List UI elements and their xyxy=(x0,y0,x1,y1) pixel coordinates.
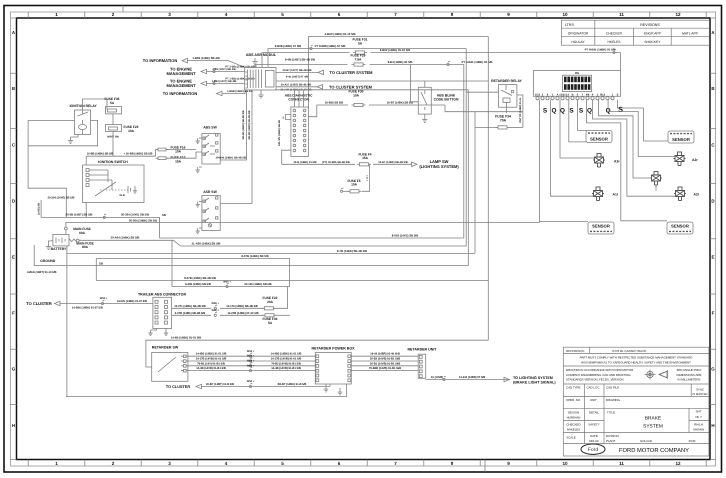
svg-text:DRAFTED IN ACCORDANCE WITH FOR: DRAFTED IN ACCORDANCE WITH FORD MOTOR xyxy=(566,368,633,372)
svg-text:19-44 (14BR) 91-40 4kB: 19-44 (14BR) 91-40 4kB xyxy=(370,353,400,356)
svg-text:20-304 (14BK) SB 5/B: 20-304 (14BK) SB 5/B xyxy=(129,218,157,222)
ground inside ignition switch xyxy=(134,186,136,188)
svg-text:E: E xyxy=(12,255,15,260)
wire relay bottom to fuse F34 line xyxy=(506,107,508,113)
svg-text:10A: 10A xyxy=(351,183,358,187)
svg-text:10A: 10A xyxy=(128,129,135,133)
svg-text:RETARDER POWER BOX: RETARDER POWER BOX xyxy=(311,346,355,350)
svg-text:S: S xyxy=(579,108,584,115)
svg-text:DESIGN: DESIGN xyxy=(568,410,579,414)
svg-text:(14YE) SB: (14YE) SB xyxy=(38,203,41,215)
svg-text:60A: 60A xyxy=(79,231,86,235)
svg-text:PIN: PIN xyxy=(575,72,579,75)
svg-text:B: B xyxy=(711,86,714,91)
svg-text:2: 2 xyxy=(112,461,115,466)
svg-text:CAD TYPE: CAD TYPE xyxy=(566,386,580,390)
svg-text:7: 7 xyxy=(394,12,397,17)
svg-text:A2r: A2r xyxy=(692,158,698,162)
svg-text:H: H xyxy=(12,423,15,428)
svg-text:3: 3 xyxy=(168,461,171,466)
svg-text:10-B7 (14BK) SB-4B 5/B: 10-B7 (14BK) SB-4B 5/B xyxy=(378,161,408,164)
svg-text:ORIGINATOR: ORIGINATOR xyxy=(568,31,589,35)
wires retarder sw to power box xyxy=(186,355,315,357)
svg-text:10 (14VB): 10 (14VB) xyxy=(431,376,443,379)
svg-text:PT 9-B08 (14BK) 97 5/B: PT 9-B08 (14BK) 97 5/B xyxy=(315,44,346,48)
wire pin 8 right-routed to middle valve xyxy=(599,100,652,178)
svg-text:4-B3 (14VT) SB 4/B: 4-B3 (14VT) SB 4/B xyxy=(212,68,235,71)
wire ignition switch bottom drop xyxy=(85,203,87,218)
svg-text:2: 2 xyxy=(112,12,115,17)
svg-text:WS0 +: WS0 + xyxy=(212,309,220,312)
wire pin 1 branch to bottom-left sensor xyxy=(540,221,589,223)
svg-text:IGNITION SWITCH: IGNITION SWITCH xyxy=(98,160,128,164)
svg-text:1-B5B (14BK) SB 4/B: 1-B5B (14BK) SB 4/B xyxy=(227,90,253,93)
svg-text:30-B06 (14BK) SB-4B 5/B: 30-B06 (14BK) SB-4B 5/B xyxy=(216,157,247,160)
wire engine mgmt upper to module xyxy=(207,71,245,73)
svg-text:DIMENSIONS ARE: DIMENSIONS ARE xyxy=(677,373,702,377)
svg-text:CODE BUTTON: CODE BUTTON xyxy=(434,98,459,102)
ground below module xyxy=(260,90,262,92)
svg-text:ABS SW: ABS SW xyxy=(203,126,217,130)
svg-text:B: B xyxy=(572,93,574,96)
sensor bottom-left xyxy=(588,222,614,234)
wire information upper to module diagonal xyxy=(188,61,245,68)
svg-text:REFERENCE: REFERENCE xyxy=(566,349,585,353)
wire H280 bracket long line to V488 xyxy=(96,280,488,282)
svg-text:11: 11 xyxy=(619,12,624,17)
valve A1l xyxy=(592,187,604,201)
wire module right to V468 line y89.8 xyxy=(276,89,468,91)
fuse F33 xyxy=(265,314,274,317)
svg-text:10: 10 xyxy=(562,12,568,17)
svg-text:GOLCUK: GOLCUK xyxy=(640,439,652,443)
svg-text:MANAGEMENT: MANAGEMENT xyxy=(166,71,196,76)
svg-text:14-025 (14BK) 91-07 5/B: 14-025 (14BK) 91-07 5/B xyxy=(117,300,147,303)
svg-text:D: D xyxy=(711,198,714,203)
svg-text:DATE: DATE xyxy=(590,434,598,438)
svg-text:70A: 70A xyxy=(500,119,507,123)
diag connector left bracket xyxy=(286,115,291,120)
wire diagonal jog xyxy=(174,240,181,246)
wire S pin right-routed to top-right sensor xyxy=(618,100,668,141)
svg-text:4-BU0 (14BK) 91-10 5/B: 4-BU0 (14BK) 91-10 5/B xyxy=(325,32,356,36)
svg-text:5: 5 xyxy=(281,12,284,17)
svg-text:A2l: A2l xyxy=(694,193,699,197)
wire pin 4 to top-left sensor lower feed xyxy=(569,100,587,142)
svg-text:14-434 (14BR) 97 5/B: 14-434 (14BR) 97 5/B xyxy=(459,376,485,379)
wire relay right side down xyxy=(517,95,523,127)
wire top line from module pin to V466 xyxy=(268,49,466,68)
wire information lower to module xyxy=(222,90,245,94)
svg-text:WS0 +: WS0 + xyxy=(212,302,220,305)
top fiducial mark xyxy=(122,6,124,13)
svg-text:MANAGEMENT: MANAGEMENT xyxy=(166,83,196,88)
svg-text:DRAWING: DRAWING xyxy=(606,398,621,402)
wire to trailer abs connector xyxy=(60,303,153,305)
svg-text:4: 4 xyxy=(225,461,228,466)
wire battery main vertical down xyxy=(66,246,68,397)
svg-text:+ 30-BB (14BK) SB 5/B: + 30-BB (14BK) SB 5/B xyxy=(124,153,153,156)
svg-text:9-07B (14BK) SB-4B 5/B: 9-07B (14BK) SB-4B 5/B xyxy=(175,312,206,315)
stub below middle valve xyxy=(655,185,657,191)
svg-text:20-B1 (14VB) 91-B1 5kB: 20-B1 (14VB) 91-B1 5kB xyxy=(370,362,400,365)
svg-text:5: 5 xyxy=(281,461,284,466)
svg-text:20-B2 (14VB) 91-B1 5kB: 20-B2 (14VB) 91-B1 5kB xyxy=(370,358,400,361)
svg-text:5A: 5A xyxy=(358,42,363,46)
svg-text:14-17B (14VB) 91-01 5/B: 14-17B (14VB) 91-01 5/B xyxy=(271,358,302,361)
svg-text:PART MUST COMPLY WITH RESTRICT: PART MUST COMPLY WITH RESTRICTED SUBSTAN… xyxy=(580,355,693,359)
svg-text:OF 7: OF 7 xyxy=(695,415,702,419)
wire fuse f16/f10 leads xyxy=(156,149,158,151)
svg-text:20-304 (14YE) SB 5/B: 20-304 (14YE) SB 5/B xyxy=(121,213,149,217)
wire ABS SW right to module drop V246 xyxy=(220,90,246,160)
ground below ignition relay xyxy=(71,135,79,138)
wire engine mgmt lower to module xyxy=(207,83,245,85)
ground below ASR SW xyxy=(199,227,202,229)
wire pin 6 right-routed to bottom-right sensor xyxy=(586,100,667,221)
wire H265 battery enclosure to V468 xyxy=(34,245,468,266)
svg-text:10A: 10A xyxy=(175,149,182,153)
wire fuse ladder down to ignition feed line xyxy=(112,114,114,125)
svg-text:SB: SB xyxy=(162,213,166,217)
svg-text:CHECKER: CHECKER xyxy=(606,31,623,35)
svg-text:H: H xyxy=(711,423,714,428)
svg-text:4: 4 xyxy=(225,12,228,17)
svg-text:CAD FILE: CAD FILE xyxy=(606,386,619,390)
svg-text:(PT) 30-B05 SB-4B 5/B: (PT) 30-B05 SB-4B 5/B xyxy=(322,161,350,164)
fuse F23 xyxy=(106,125,122,132)
svg-text:1: 1 xyxy=(55,461,58,466)
svg-text:Q: Q xyxy=(560,108,565,115)
svg-text:14-B05 (14BK) 91-07 5/B: 14-B05 (14BK) 91-07 5/B xyxy=(72,307,103,310)
wire module to cluster system upper xyxy=(276,71,318,73)
svg-text:I I I I: I I I I xyxy=(366,175,369,180)
valve A2l xyxy=(674,187,686,201)
svg-text:(LIGHTING SYSTEM): (LIGHTING SYSTEM) xyxy=(419,164,459,169)
svg-text:10A: 10A xyxy=(353,94,360,98)
wire ignition feed horizontal xyxy=(86,155,155,157)
sensor top-right xyxy=(668,131,694,143)
svg-text:SYNC: SYNC xyxy=(696,388,704,392)
svg-text:A: A xyxy=(557,93,559,96)
svg-text:Q: Q xyxy=(587,108,592,115)
svg-text:6: 6 xyxy=(338,461,341,466)
ground below power box left xyxy=(325,384,327,386)
wire bottom ground return long xyxy=(66,396,347,398)
wire module to cluster system lower xyxy=(276,86,317,88)
svg-text:14-4B (14BK) 91-01 5/B: 14-4B (14BK) 91-01 5/B xyxy=(171,336,201,340)
wire relay top to fuse ladder xyxy=(83,99,108,110)
svg-text:BATTERY: BATTERY xyxy=(51,247,67,251)
svg-text:10-071 (14BK) SB-4B 5/B: 10-071 (14BK) SB-4B 5/B xyxy=(174,305,206,308)
svg-text:STANDARDS VERSION_FECDS_VERSIO: STANDARDS VERSION_FECDS_VERSION xyxy=(566,378,623,382)
svg-text:7.5A: 7.5A xyxy=(355,58,362,62)
wire retarder feed line y340 xyxy=(146,340,488,367)
svg-text:LTRS: LTRS xyxy=(565,23,575,27)
svg-text:REVISIONS: REVISIONS xyxy=(640,23,660,27)
svg-text:IN MILLIMETERS: IN MILLIMETERS xyxy=(678,378,701,382)
svg-text:10: 10 xyxy=(562,461,568,466)
wire battery feed to diagonal jog xyxy=(79,239,173,241)
svg-text:Q: Q xyxy=(552,108,557,115)
svg-text:SHOWN: SHOWN xyxy=(693,428,704,432)
svg-text:BRAKE: BRAKE xyxy=(645,415,661,421)
svg-text:PT 9-B41 (14BK) 91 5/B: PT 9-B41 (14BK) 91 5/B xyxy=(585,48,616,52)
svg-text:20-A27 (14BT) SB-4B 4/B: 20-A27 (14BT) SB-4B 4/B xyxy=(281,83,312,86)
svg-text:SENSOR: SENSOR xyxy=(590,136,608,141)
ground left of ABS SW top xyxy=(199,137,202,139)
svg-text:6: 6 xyxy=(338,12,341,17)
svg-text:79-B4B (14VB) 91-B1 5kB: 79-B4B (14VB) 91-B1 5kB xyxy=(369,367,401,370)
svg-text:20-129 (14BK) SB 5/B: 20-129 (14BK) SB 5/B xyxy=(244,283,271,286)
svg-text:F: F xyxy=(712,311,715,316)
wire stub ignition low to battery-pin line xyxy=(159,217,161,222)
valve middle A1r xyxy=(650,172,662,186)
svg-text:TO INFORMATION: TO INFORMATION xyxy=(143,58,178,63)
title block xyxy=(563,347,709,456)
switch ABS BLINK CODE BUTTON xyxy=(418,87,431,114)
ground left of ASR SW top xyxy=(199,201,202,203)
svg-text:B: B xyxy=(12,86,15,91)
svg-text:IS MASTER: IS MASTER xyxy=(692,392,707,396)
wire V488 top feed down to retarder box line xyxy=(487,37,489,341)
wire pin 5 to top-left sensor upper feed xyxy=(578,100,587,131)
Ford oval logo xyxy=(581,444,605,454)
wire lamp switch line xyxy=(282,163,355,165)
svg-text:A1l: A1l xyxy=(613,193,618,197)
svg-text:9-4a (14BT) 97 4/B: 9-4a (14BT) 97 4/B xyxy=(286,75,308,78)
wire Q pin right-routed to valve A2r xyxy=(608,100,675,157)
svg-text:SB-4B (14BK) SB-4B 5/B: SB-4B (14BK) SB-4B 5/B xyxy=(242,110,245,139)
svg-text:ABS ASR MODUL: ABS ASR MODUL xyxy=(246,53,277,57)
svg-text:S: S xyxy=(569,108,574,115)
wire left loop vertical down to ignition low line xyxy=(28,120,66,217)
svg-text:7: 7 xyxy=(394,461,397,466)
svg-text:IGNITION RELAY: IGNITION RELAY xyxy=(70,104,98,108)
wire V475 tee down to H253 xyxy=(474,112,476,253)
svg-text:3RD ANGLE PROJ: 3RD ANGLE PROJ xyxy=(677,368,702,372)
svg-text:8-498 (14BK) SB 5/B: 8-498 (14BK) SB 5/B xyxy=(185,283,211,286)
svg-text:WS0 +: WS0 + xyxy=(247,350,255,353)
svg-text:20-A04 (14BK) SB 5/B: 20-A04 (14BK) SB 5/B xyxy=(111,236,140,240)
svg-text:14-4B (14VB) 91-B1 5/B: 14-4B (14VB) 91-B1 5/B xyxy=(271,367,301,370)
svg-text:5A: 5A xyxy=(110,101,115,105)
svg-text:9-B08 (14BK) 97 5/B: 9-B08 (14BK) 97 5/B xyxy=(275,44,301,48)
wire pin 1 long feed to battery main fuse xyxy=(67,100,540,223)
svg-text:3: 3 xyxy=(168,12,171,17)
svg-text:9: 9 xyxy=(507,12,510,17)
wire fuse F31 line right segment to connector block xyxy=(464,52,621,54)
svg-text:9-B4 (14BK) 91 5/B: 9-B4 (14BK) 91 5/B xyxy=(388,60,413,64)
svg-text:SCALE: SCALE xyxy=(566,436,576,440)
svg-text:B0-B7 (14BK) 91-B 5/B: B0-B7 (14BK) 91-B 5/B xyxy=(278,383,307,386)
svg-text:TO INFORMATION: TO INFORMATION xyxy=(163,91,198,96)
wires power box to retarder unit xyxy=(351,355,418,357)
svg-text:TO CLUSTER SYSTEM: TO CLUSTER SYSTEM xyxy=(329,70,373,75)
wire drop from F31 line into connector block top xyxy=(620,53,622,71)
svg-text:9-7B (14BK) SB-4B 5/B: 9-7B (14BK) SB-4B 5/B xyxy=(337,249,367,253)
svg-text:TO CLUSTER: TO CLUSTER xyxy=(26,301,52,306)
svg-text:F: F xyxy=(12,311,15,316)
fuse F31 line with fuse xyxy=(262,53,350,68)
svg-text:FORD MOTOR COMPANY: FORD MOTOR COMPANY xyxy=(619,447,689,454)
svg-text:WS0 +: WS0 + xyxy=(247,380,255,383)
svg-text:SHT: SHT xyxy=(696,409,702,413)
svg-text:JL-A00 (14BK) SB 5/B: JL-A00 (14BK) SB 5/B xyxy=(192,242,221,246)
wire pin 7 right-routed to valve A2l xyxy=(593,100,676,196)
svg-text:SHOCKEY: SHOCKEY xyxy=(644,40,661,44)
wire into retarder relay left xyxy=(466,91,498,93)
svg-text:G: G xyxy=(12,367,16,372)
svg-text:GROUND: GROUND xyxy=(40,259,56,263)
svg-text:14-07B (14BK) 97-4C 5/B: 14-07B (14BK) 97-4C 5/B xyxy=(227,312,258,315)
svg-text:1/15: 1/15 xyxy=(535,93,541,96)
wire battery feed right to V466 xyxy=(181,49,467,247)
svg-text:15A: 15A xyxy=(175,159,182,163)
svg-text:8-003 (14YE) SB 5/B: 8-003 (14YE) SB 5/B xyxy=(392,233,418,237)
svg-text:WSS-M99P9999-A1 TO SAFEGUARD H: WSS-M99P9999-A1 TO SAFEGUARD HEALTH, SAF… xyxy=(581,361,691,365)
svg-text:TO LIGHTING SYSTEM: TO LIGHTING SYSTEM xyxy=(513,376,553,380)
wire trailer line 2 with fuse F33 xyxy=(172,314,211,316)
svg-text:RETARDER SW: RETARDER SW xyxy=(152,345,179,349)
svg-text:20-B7 (14BT) 91-B 5/B: 20-B7 (14BT) 91-B 5/B xyxy=(206,383,234,386)
connector X1 retarder connector block xyxy=(533,71,620,97)
svg-text:5A: 5A xyxy=(268,321,273,325)
ground battery xyxy=(49,241,53,243)
svg-text:8-07B (14BK) SB 5/B: 8-07B (14BK) SB 5/B xyxy=(241,254,268,258)
wire diag connector pins to module xyxy=(294,90,296,107)
ground below power box right xyxy=(346,384,348,397)
svg-text:9-4M (14BT) SB-4B 5/B: 9-4M (14BT) SB-4B 5/B xyxy=(285,58,315,62)
svg-text:-1: -1 xyxy=(282,116,285,120)
wire trailer connector to fuse F22 xyxy=(172,307,211,309)
fuse F10 xyxy=(158,157,166,160)
svg-text:ENGR APP: ENGR APP xyxy=(644,31,662,35)
svg-text:Ford: Ford xyxy=(588,447,599,453)
wire V172 battery line to trailer line xyxy=(171,240,173,286)
wire fuse F34 line xyxy=(475,126,497,128)
wire fuse F4 to fuse F5 xyxy=(362,164,370,191)
revisions table xyxy=(561,20,709,45)
wire pin 2 to valve A1l xyxy=(551,100,594,196)
svg-text:9: 9 xyxy=(507,461,510,466)
svg-text:10-BB (14BK) SB 5/B: 10-BB (14BK) SB 5/B xyxy=(87,153,114,156)
svg-text:S: S xyxy=(543,108,548,115)
svg-text:HAKELES: HAKELES xyxy=(567,428,580,432)
fuse F30 line xyxy=(308,105,348,117)
svg-text:20-304 (14YE) SB 5/B: 20-304 (14YE) SB 5/B xyxy=(48,197,75,200)
wire blink button left feed from F29 drop xyxy=(411,65,419,102)
svg-text:PLANT: PLANT xyxy=(606,439,616,443)
svg-text:1-B59 (14BK) SB 4/B: 1-B59 (14BK) SB 4/B xyxy=(192,56,219,60)
wire bracket vertical x96 xyxy=(95,259,97,281)
wire ignition switch top to feed line xyxy=(85,156,87,165)
svg-text:CHECKED: CHECKED xyxy=(566,423,580,427)
wire retarder unit to lighting system xyxy=(426,379,509,381)
svg-text:TO CLUSTER SYSTEM: TO CLUSTER SYSTEM xyxy=(329,84,373,89)
svg-text:SENSOR: SENSOR xyxy=(592,224,610,229)
wire H238 ignition to V463 xyxy=(160,217,464,238)
svg-text:20-B7 (14BK) SB 5/B: 20-B7 (14BK) SB 5/B xyxy=(387,102,413,105)
valve A2r xyxy=(674,152,686,166)
svg-text:ASR SW: ASR SW xyxy=(203,190,217,194)
connector block pin numbers xyxy=(536,97,539,100)
svg-text:(BRAKE LIGHT SIGNAL): (BRAKE LIGHT SIGNAL) xyxy=(513,381,556,385)
svg-text:SYSTEM: SYSTEM xyxy=(643,424,663,430)
svg-text:14-4B2 (14BK) 91-01 5/B: 14-4B2 (14BK) 91-01 5/B xyxy=(271,353,302,356)
svg-text:20A: 20A xyxy=(267,300,274,304)
svg-text:D61.06: D61.06 xyxy=(589,439,599,443)
wire module right to blink button feed line y81 xyxy=(276,80,488,82)
svg-text:9-07B (14BK) SB-4B 5/B: 9-07B (14BK) SB-4B 5/B xyxy=(184,276,216,280)
ground below blink button xyxy=(424,114,426,116)
svg-text:RETARDER RELAY: RETARDER RELAY xyxy=(491,79,522,83)
svg-text:12: 12 xyxy=(675,12,681,17)
svg-text:OPER. NO.: OPER. NO. xyxy=(566,398,581,402)
svg-text:12: 12 xyxy=(675,461,681,466)
wire trailer top line xyxy=(172,286,290,288)
svg-text:TO CLUSTER: TO CLUSTER xyxy=(166,385,190,389)
svg-text:8: 8 xyxy=(451,461,454,466)
svg-text:6S30: 6S30 xyxy=(689,439,696,443)
wire to cluster bottom line xyxy=(202,386,331,388)
svg-text:4-BU6 (14BT) 91-10 5/B: 4-BU6 (14BT) 91-10 5/B xyxy=(27,271,56,274)
svg-text:DIVISION: DIVISION xyxy=(606,434,619,438)
svg-text:SB-4B (14BK) SB-4B 5/B: SB-4B (14BK) SB-4B 5/B xyxy=(248,110,251,139)
svg-text:MATL APP: MATL APP xyxy=(682,31,699,35)
svg-text:RH/LH: RH/LH xyxy=(694,423,703,427)
svg-text:SENSOR: SENSOR xyxy=(672,137,690,142)
wire H253 battery vertical to V475 xyxy=(67,253,475,255)
ground below trailer connector left xyxy=(151,329,157,331)
valve A3r xyxy=(593,154,605,168)
svg-text:15A: 15A xyxy=(362,156,369,160)
svg-text:11: 11 xyxy=(619,461,624,466)
svg-text:H476 BL CARGO TRUCK: H476 BL CARGO TRUCK xyxy=(612,349,647,353)
wire top line T1 from diagnostic connector to right vertical xyxy=(309,37,489,109)
svg-text:79-B1 (14Y) 91-B1 5/B: 79-B1 (14Y) 91-B1 5/B xyxy=(197,362,225,365)
svg-text:SAFETY: SAFETY xyxy=(588,423,599,427)
battery B1 xyxy=(53,234,69,246)
wire fuse F29 line xyxy=(256,65,348,68)
ground below trailer connector right xyxy=(165,329,167,331)
svg-text:E: E xyxy=(712,255,715,260)
svg-text:14-17B (14VB) 91-01 5/B: 14-17B (14VB) 91-01 5/B xyxy=(196,358,227,361)
svg-text:80A: 80A xyxy=(82,245,89,249)
svg-text:UNIT: UNIT xyxy=(590,398,597,402)
svg-text:1-B53 (14VT) SB 4/B: 1-B53 (14VT) SB 4/B xyxy=(212,80,237,83)
svg-text:14-4B2 (14BK) 91-01 5/B: 14-4B2 (14BK) 91-01 5/B xyxy=(196,353,227,356)
svg-text:S: S xyxy=(617,93,619,96)
svg-text:SENSOR: SENSOR xyxy=(671,224,689,229)
svg-text:GLB: GLB xyxy=(119,194,124,197)
svg-text:DETAIL: DETAIL xyxy=(589,410,599,414)
svg-text:WS0 +: WS0 + xyxy=(247,360,255,363)
svg-text:CAD LOC.: CAD LOC. xyxy=(587,386,601,390)
svg-text:WS0 +: WS0 + xyxy=(247,364,255,367)
svg-text:HLREHAN: HLREHAN xyxy=(567,415,581,419)
bottom fiducial mark xyxy=(484,460,486,473)
svg-text:14-4B (14VB) 91-B1 5/B: 14-4B (14VB) 91-B1 5/B xyxy=(196,367,226,370)
ground above module xyxy=(254,65,256,68)
svg-text:D: D xyxy=(12,198,15,203)
svg-text:COMPANY ENGINEERING CAD AND DR: COMPANY ENGINEERING CAD AND DRAFTING xyxy=(566,373,631,377)
wire relay right pin loop down xyxy=(28,120,98,145)
svg-text:SB: SB xyxy=(99,262,103,266)
svg-text:WS0 +: WS0 + xyxy=(247,355,255,358)
wire diag connector to lamp line drop xyxy=(282,150,291,164)
svg-text:WS0 +: WS0 + xyxy=(223,280,231,283)
